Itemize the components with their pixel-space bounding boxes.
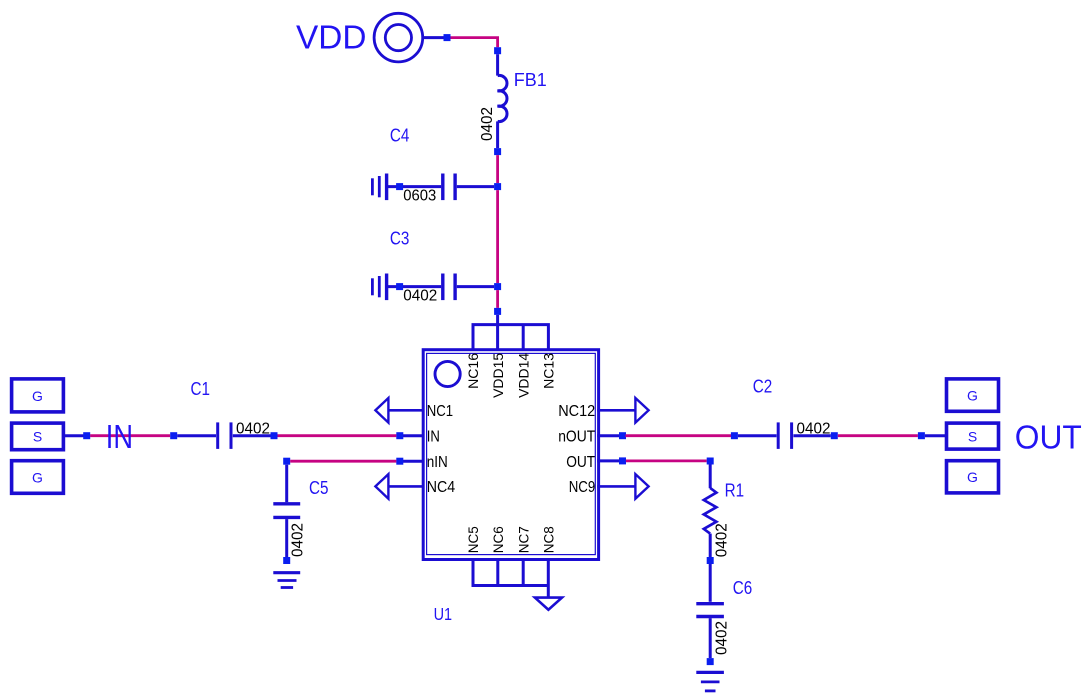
svg-text:NC5: NC5 — [465, 526, 481, 553]
capacitor C3 plates — [443, 274, 455, 301]
connector pad S left — [12, 423, 64, 450]
svg-text:NC7: NC7 — [515, 526, 531, 553]
junction at R1 top — [707, 458, 714, 465]
no-connect arrow NC1 — [375, 398, 388, 423]
wire R1 top lead — [709, 465, 712, 489]
wire net OUT segment 2 — [838, 434, 918, 437]
pin NC12 wire — [597, 409, 635, 412]
ground symbol below C6 — [696, 672, 724, 691]
svg-text:C3: C3 — [390, 229, 410, 249]
wire net nIN segment — [290, 460, 396, 463]
connector pad G top-right — [947, 379, 999, 411]
svg-text:NC12: NC12 — [558, 403, 595, 420]
connector pad G top-left — [12, 379, 64, 412]
capacitor C6 plates — [696, 604, 724, 617]
svg-text:NC9: NC9 — [569, 479, 596, 496]
svg-text:NC6: NC6 — [490, 526, 506, 553]
svg-text:IN: IN — [106, 419, 133, 456]
svg-text:C2: C2 — [753, 376, 773, 396]
no-connect arrow NC9 — [635, 474, 648, 499]
wire R1 bottom lead — [709, 534, 712, 557]
wire net C4 node to C3 node — [496, 190, 499, 283]
svg-text:0402: 0402 — [289, 523, 306, 557]
junction at S pad right — [918, 432, 925, 439]
junction at pin nOUT — [619, 432, 626, 439]
ground symbol below U1 — [535, 598, 562, 610]
wire C3 to net — [457, 285, 494, 288]
junction below FB1 — [494, 148, 501, 155]
pin NC1 wire — [388, 409, 424, 412]
wire C1 right lead — [233, 434, 271, 437]
svg-text:nOUT: nOUT — [558, 428, 595, 445]
junction below R1 — [707, 557, 714, 564]
junction after C1 — [271, 432, 278, 439]
wire C5 top lead — [285, 465, 288, 503]
wire VDD terminal lead — [423, 36, 451, 39]
no-connect arrow NC12 — [635, 398, 648, 423]
wire R1 to C6 — [709, 564, 712, 602]
svg-text:NC4: NC4 — [427, 479, 456, 496]
svg-text:0402: 0402 — [479, 107, 496, 141]
wire ground to C3 — [388, 285, 441, 288]
wire net VDD horizontal+corner — [451, 38, 498, 48]
svg-text:C4: C4 — [390, 125, 410, 145]
svg-text:S: S — [968, 429, 977, 445]
IC U1 body outer — [423, 350, 598, 560]
junction node C4 — [494, 183, 501, 190]
wire C4 to net — [457, 185, 494, 188]
svg-text:OUT: OUT — [1015, 419, 1082, 456]
svg-text:NC1: NC1 — [427, 403, 453, 420]
pin nOUT wire — [597, 434, 625, 437]
svg-text:OUT: OUT — [566, 454, 595, 471]
svg-text:0402: 0402 — [714, 621, 731, 655]
svg-text:0402: 0402 — [403, 287, 437, 304]
U1 pin 1 indicator circle — [435, 361, 460, 386]
svg-text:NC16: NC16 — [465, 353, 481, 389]
svg-text:VDD14: VDD14 — [515, 353, 531, 398]
wire C2 right lead — [793, 434, 830, 437]
svg-text:NC8: NC8 — [540, 526, 556, 553]
junction at VDD terminal — [444, 34, 451, 41]
junction above U1 VDD pin — [494, 308, 501, 315]
junction below C5 — [283, 557, 290, 564]
U1 bottom pin bus — [473, 559, 548, 597]
junction below C6 — [707, 658, 714, 665]
wire net C3 node to U1 — [496, 290, 499, 308]
pin NC4 wire — [388, 485, 424, 488]
junction at C5 top — [283, 458, 290, 465]
junction at pin OUT — [619, 457, 626, 464]
svg-text:0402: 0402 — [714, 523, 731, 557]
wire C2 left lead — [738, 434, 777, 437]
wire C1 left lead — [177, 434, 216, 437]
svg-text:VDD: VDD — [296, 19, 367, 56]
resistor R1 zigzag — [704, 488, 717, 534]
no-connect arrow NC4 — [375, 474, 388, 499]
svg-text:nIN: nIN — [427, 454, 448, 471]
svg-text:C6: C6 — [733, 578, 753, 598]
junction at pin nIN — [396, 458, 403, 465]
svg-text:0402: 0402 — [797, 420, 831, 437]
wire net IN segment 1 — [90, 434, 170, 437]
wire S pad lead — [63, 434, 90, 437]
svg-text:0603: 0603 — [403, 187, 436, 204]
svg-text:C1: C1 — [191, 379, 211, 399]
junction at C3 ground lead — [396, 283, 403, 290]
pin IN wire — [396, 434, 424, 437]
pin nIN wire — [396, 460, 424, 463]
wire junction to U1 top bus — [496, 315, 499, 325]
wire S pad right lead — [925, 434, 947, 437]
ground symbol below C5 — [273, 573, 300, 588]
wire ground to C4 — [388, 185, 441, 188]
wire C5 bottom lead — [285, 519, 288, 557]
svg-text:G: G — [967, 469, 978, 485]
capacitor C1 plates — [218, 422, 231, 449]
ferrite bead FB1 — [498, 54, 507, 148]
connector pad S right — [947, 423, 999, 449]
ground sideways at C3 — [372, 274, 386, 301]
wire net nOUT segment 1 — [626, 434, 732, 437]
connector pad G bottom-right — [947, 461, 999, 493]
pin OUT wire — [597, 459, 625, 462]
wire net IN segment 2 — [278, 434, 397, 437]
svg-text:U1: U1 — [434, 604, 453, 624]
svg-text:R1: R1 — [725, 480, 745, 500]
capacitor C4 plates — [443, 174, 455, 201]
svg-text:IN: IN — [427, 428, 440, 445]
wire C6 bottom lead — [709, 618, 712, 658]
op-amp U1 top pin bus — [473, 325, 548, 350]
svg-text:0402: 0402 — [236, 420, 270, 437]
svg-text:FB1: FB1 — [514, 70, 547, 90]
junction at pin IN — [396, 432, 403, 439]
svg-text:G: G — [967, 388, 978, 404]
capacitor C5 plates — [273, 504, 300, 518]
junction at S pad — [83, 432, 90, 439]
svg-text:G: G — [32, 388, 43, 404]
IC U1 body inner line — [427, 353, 596, 554]
ground sideways at C4 — [372, 174, 386, 201]
junction node C3 — [494, 283, 501, 290]
junction at C4 ground lead — [396, 183, 403, 190]
junction above FB1 — [494, 47, 501, 54]
svg-text:G: G — [32, 469, 43, 485]
svg-text:VDD15: VDD15 — [490, 353, 506, 398]
svg-text:S: S — [33, 429, 42, 445]
wire net FB1 to C4 node — [496, 155, 499, 183]
junction before C1 — [170, 432, 177, 439]
svg-text:C5: C5 — [309, 478, 329, 498]
wire net OUT to R1 — [626, 459, 707, 462]
junction after C2 — [831, 432, 838, 439]
junction before C2 — [731, 432, 738, 439]
terminal VDD — [374, 13, 423, 62]
pin NC9 wire — [597, 485, 635, 488]
capacitor C2 plates — [778, 422, 791, 449]
svg-text:NC13: NC13 — [541, 353, 557, 389]
connector pad G bottom-left — [12, 461, 64, 494]
